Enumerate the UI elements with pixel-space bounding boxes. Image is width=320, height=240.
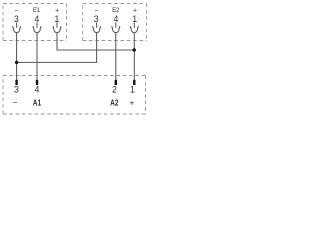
pin 2 — [115, 80, 117, 85]
svg-text:A2: A2 — [110, 97, 119, 107]
svg-text:E1: E1 — [33, 7, 40, 14]
pin 1 — [133, 80, 135, 85]
junction minus net — [15, 61, 18, 64]
svg-text:3: 3 — [14, 85, 19, 95]
pin 3 — [15, 80, 17, 85]
socket E2-1 — [130, 22, 139, 32]
wire E2-3 corner (minus net) — [17, 33, 97, 63]
connector block E2 — [83, 4, 147, 41]
svg-text:−: − — [13, 97, 18, 107]
pin 4 — [36, 80, 38, 85]
connector block E1 — [3, 4, 67, 41]
wire E1-4 to pin 4 — [36, 33, 38, 80]
svg-text:A1: A1 — [33, 97, 42, 107]
svg-text:2: 2 — [112, 85, 117, 95]
socket E2-4 — [112, 22, 121, 32]
socket E1-3 — [12, 22, 21, 32]
wire E2-1 to pin 1 (plus net vertical) — [133, 33, 135, 80]
wire E1-1 elbow (plus net) — [57, 33, 134, 50]
junction plus net — [133, 48, 136, 51]
svg-text:4: 4 — [35, 85, 40, 95]
output block A1/A2 — [3, 76, 146, 115]
socket E2-3 — [92, 22, 101, 32]
svg-text:1: 1 — [130, 85, 135, 95]
socket E1-1 — [53, 22, 62, 32]
svg-text:+: + — [130, 97, 135, 107]
wire E2-4 to pin 2 — [115, 33, 117, 80]
wire E1-3 to pin 3 (minus net vertical) — [16, 33, 18, 80]
socket E1-4 — [33, 22, 42, 32]
svg-text:E2: E2 — [112, 7, 119, 14]
